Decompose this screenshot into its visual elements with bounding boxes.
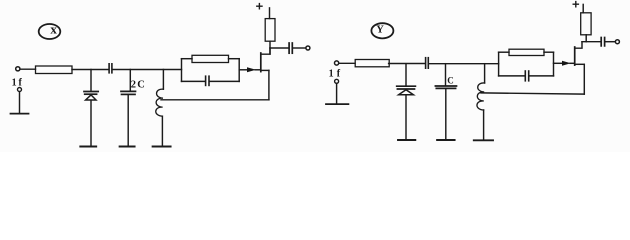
capacitor C top plate bbox=[435, 85, 456, 87]
svg-text:f: f bbox=[19, 77, 23, 88]
input terminal IN right bbox=[335, 61, 339, 65]
inductor L2 wire to ground bbox=[483, 110, 485, 139]
capacitor C2 plate left bbox=[205, 76, 207, 85]
svg-text:1: 1 bbox=[12, 77, 17, 88]
inductor L1 wire to ground bbox=[161, 116, 163, 146]
capacitor C2 plate right bbox=[208, 76, 210, 85]
wire C4 to RC block right bbox=[429, 63, 499, 65]
varactor D2 wire from node bbox=[405, 64, 407, 85]
supply plus sign right bbox=[573, 2, 578, 7]
varactor D1 cathode bar 2 bbox=[85, 93, 97, 95]
capacitor C wire from node bbox=[445, 64, 447, 86]
varactor D1 wire from node bbox=[90, 70, 92, 91]
gate wire to channel bbox=[255, 69, 260, 71]
RC block bottom branch wire left bbox=[182, 80, 206, 82]
varactor D2 wire to ground bbox=[405, 95, 407, 139]
RC block left edge bbox=[181, 59, 183, 82]
transistor Q2 channel bar bbox=[574, 47, 576, 65]
inductor L2 coil loops bbox=[477, 83, 485, 110]
RC block top branch wire left bbox=[182, 58, 193, 60]
RC block bottom branch wire right bbox=[210, 80, 240, 82]
output capacitor C3 plate right bbox=[291, 43, 293, 53]
drain wire of Q2 bbox=[575, 42, 582, 49]
feedback tap wire riser to source right bbox=[583, 65, 585, 95]
circuit label X ellipse bbox=[39, 24, 61, 39]
output capacitor C6 plate right bbox=[604, 38, 606, 46]
wire R3 to drain node bbox=[269, 41, 271, 54]
gate wire from RC block right-ckt bbox=[554, 62, 563, 64]
input ground bar bbox=[11, 113, 29, 115]
inductor L2 wire from node bbox=[484, 64, 486, 83]
capacitor C wire to ground bbox=[445, 89, 447, 140]
inductor L1 coil loops bbox=[156, 89, 164, 116]
resistor R3 drain load bbox=[265, 19, 275, 42]
gate wire to channel right-ckt bbox=[570, 62, 574, 64]
gate arrow of Q2 bbox=[562, 61, 571, 66]
transistor Q1 channel bar bbox=[260, 53, 262, 72]
wire C3 to output terminal bbox=[293, 47, 306, 49]
capacitor C5 plate right bbox=[528, 71, 530, 81]
source wire of Q1 bbox=[261, 69, 269, 71]
varactor D2 triangle bbox=[399, 90, 414, 95]
circuit label Y ellipse bbox=[371, 23, 393, 38]
resistor R6 drain load bbox=[581, 13, 591, 35]
capacitor 2C wire to ground bbox=[127, 95, 129, 146]
feedback tap wire horizontal bbox=[161, 99, 269, 101]
drain wire of Q1 bbox=[261, 48, 270, 54]
varactor D1 cathode bar 1 bbox=[84, 91, 98, 93]
inductor L1 wire from node bbox=[162, 70, 164, 90]
input ground bar right bbox=[326, 103, 348, 105]
output node wire bbox=[270, 47, 289, 49]
capacitor C4 plate left bbox=[425, 58, 427, 68]
wire C1 to RC block bbox=[113, 69, 182, 71]
ground under 2C bbox=[120, 146, 135, 148]
output node wire right bbox=[582, 41, 600, 43]
wire R4 to C4 bbox=[389, 63, 425, 65]
svg-text:x: x bbox=[50, 21, 57, 36]
feedback tap wire riser to source bbox=[268, 70, 270, 99]
supply wire right bbox=[582, 4, 584, 12]
gate arrow of Q1 bbox=[247, 67, 256, 72]
capacitor 2C bottom plate bbox=[122, 93, 136, 95]
RC block bottom branch wire left right-ckt bbox=[499, 75, 525, 77]
RC block top branch wire right right-ckt bbox=[544, 51, 554, 53]
output terminal bbox=[306, 46, 310, 50]
resistor R1 bbox=[36, 66, 73, 74]
RC block right edge bbox=[238, 59, 240, 82]
capacitor 2C wire from node bbox=[129, 70, 131, 92]
ground under C bbox=[437, 139, 455, 141]
svg-text:2C: 2C bbox=[131, 80, 146, 91]
wire input to R4 bbox=[339, 62, 355, 64]
svg-text:Y: Y bbox=[376, 25, 384, 36]
wire R6 to drain node bbox=[585, 35, 587, 42]
ground under D1 bbox=[80, 146, 96, 148]
input terminal IN bbox=[16, 67, 20, 71]
supply plus sign bbox=[257, 4, 262, 9]
varactor D1 triangle bbox=[86, 95, 96, 100]
ground under L1 bbox=[153, 146, 171, 148]
RC block top branch wire right bbox=[229, 58, 240, 60]
wire C6 to output terminal right bbox=[605, 41, 615, 43]
capacitor C1 plate right bbox=[111, 64, 113, 73]
output terminal right bbox=[615, 40, 619, 44]
svg-text:f: f bbox=[337, 69, 341, 80]
wire input to R1 bbox=[20, 68, 35, 70]
wire R1 to C1 bbox=[72, 69, 109, 71]
gate wire from RC block bbox=[239, 69, 247, 71]
input ground wire right bbox=[336, 84, 338, 104]
varactor D1 wire to ground bbox=[90, 100, 92, 146]
feedback tap wire horizontal right bbox=[481, 93, 584, 94]
input ground wire bbox=[19, 92, 21, 113]
RC block right edge right-ckt bbox=[553, 52, 555, 76]
varactor D2 cathode bar 2 bbox=[397, 88, 414, 90]
RC block right circuit left edge bbox=[498, 52, 500, 76]
output capacitor C3 plate left bbox=[288, 43, 290, 53]
capacitor C5 plate left bbox=[524, 71, 526, 81]
capacitor 2C top plate bbox=[121, 90, 136, 92]
resistor R2 bbox=[192, 55, 229, 62]
varactor D2 cathode bar 1 bbox=[397, 85, 416, 87]
svg-text:C: C bbox=[447, 76, 454, 86]
input ground terminal circle right bbox=[335, 79, 339, 83]
ground under L2 bbox=[474, 139, 493, 141]
supply wire bbox=[269, 8, 271, 19]
RC block top branch wire left right-ckt bbox=[499, 51, 509, 53]
ground under D2 bbox=[398, 139, 415, 141]
source wire of Q2 bbox=[575, 63, 584, 65]
capacitor C bottom plate bbox=[436, 87, 455, 89]
capacitor C4 plate right bbox=[427, 58, 429, 68]
resistor R5 bbox=[509, 49, 544, 55]
output capacitor C6 plate left bbox=[600, 38, 602, 46]
svg-text:1: 1 bbox=[329, 69, 334, 80]
capacitor C1 plate left bbox=[108, 64, 110, 73]
resistor R4 bbox=[355, 60, 389, 67]
input ground terminal circle bbox=[18, 88, 22, 92]
RC block bottom branch wire right right-ckt bbox=[529, 75, 553, 77]
